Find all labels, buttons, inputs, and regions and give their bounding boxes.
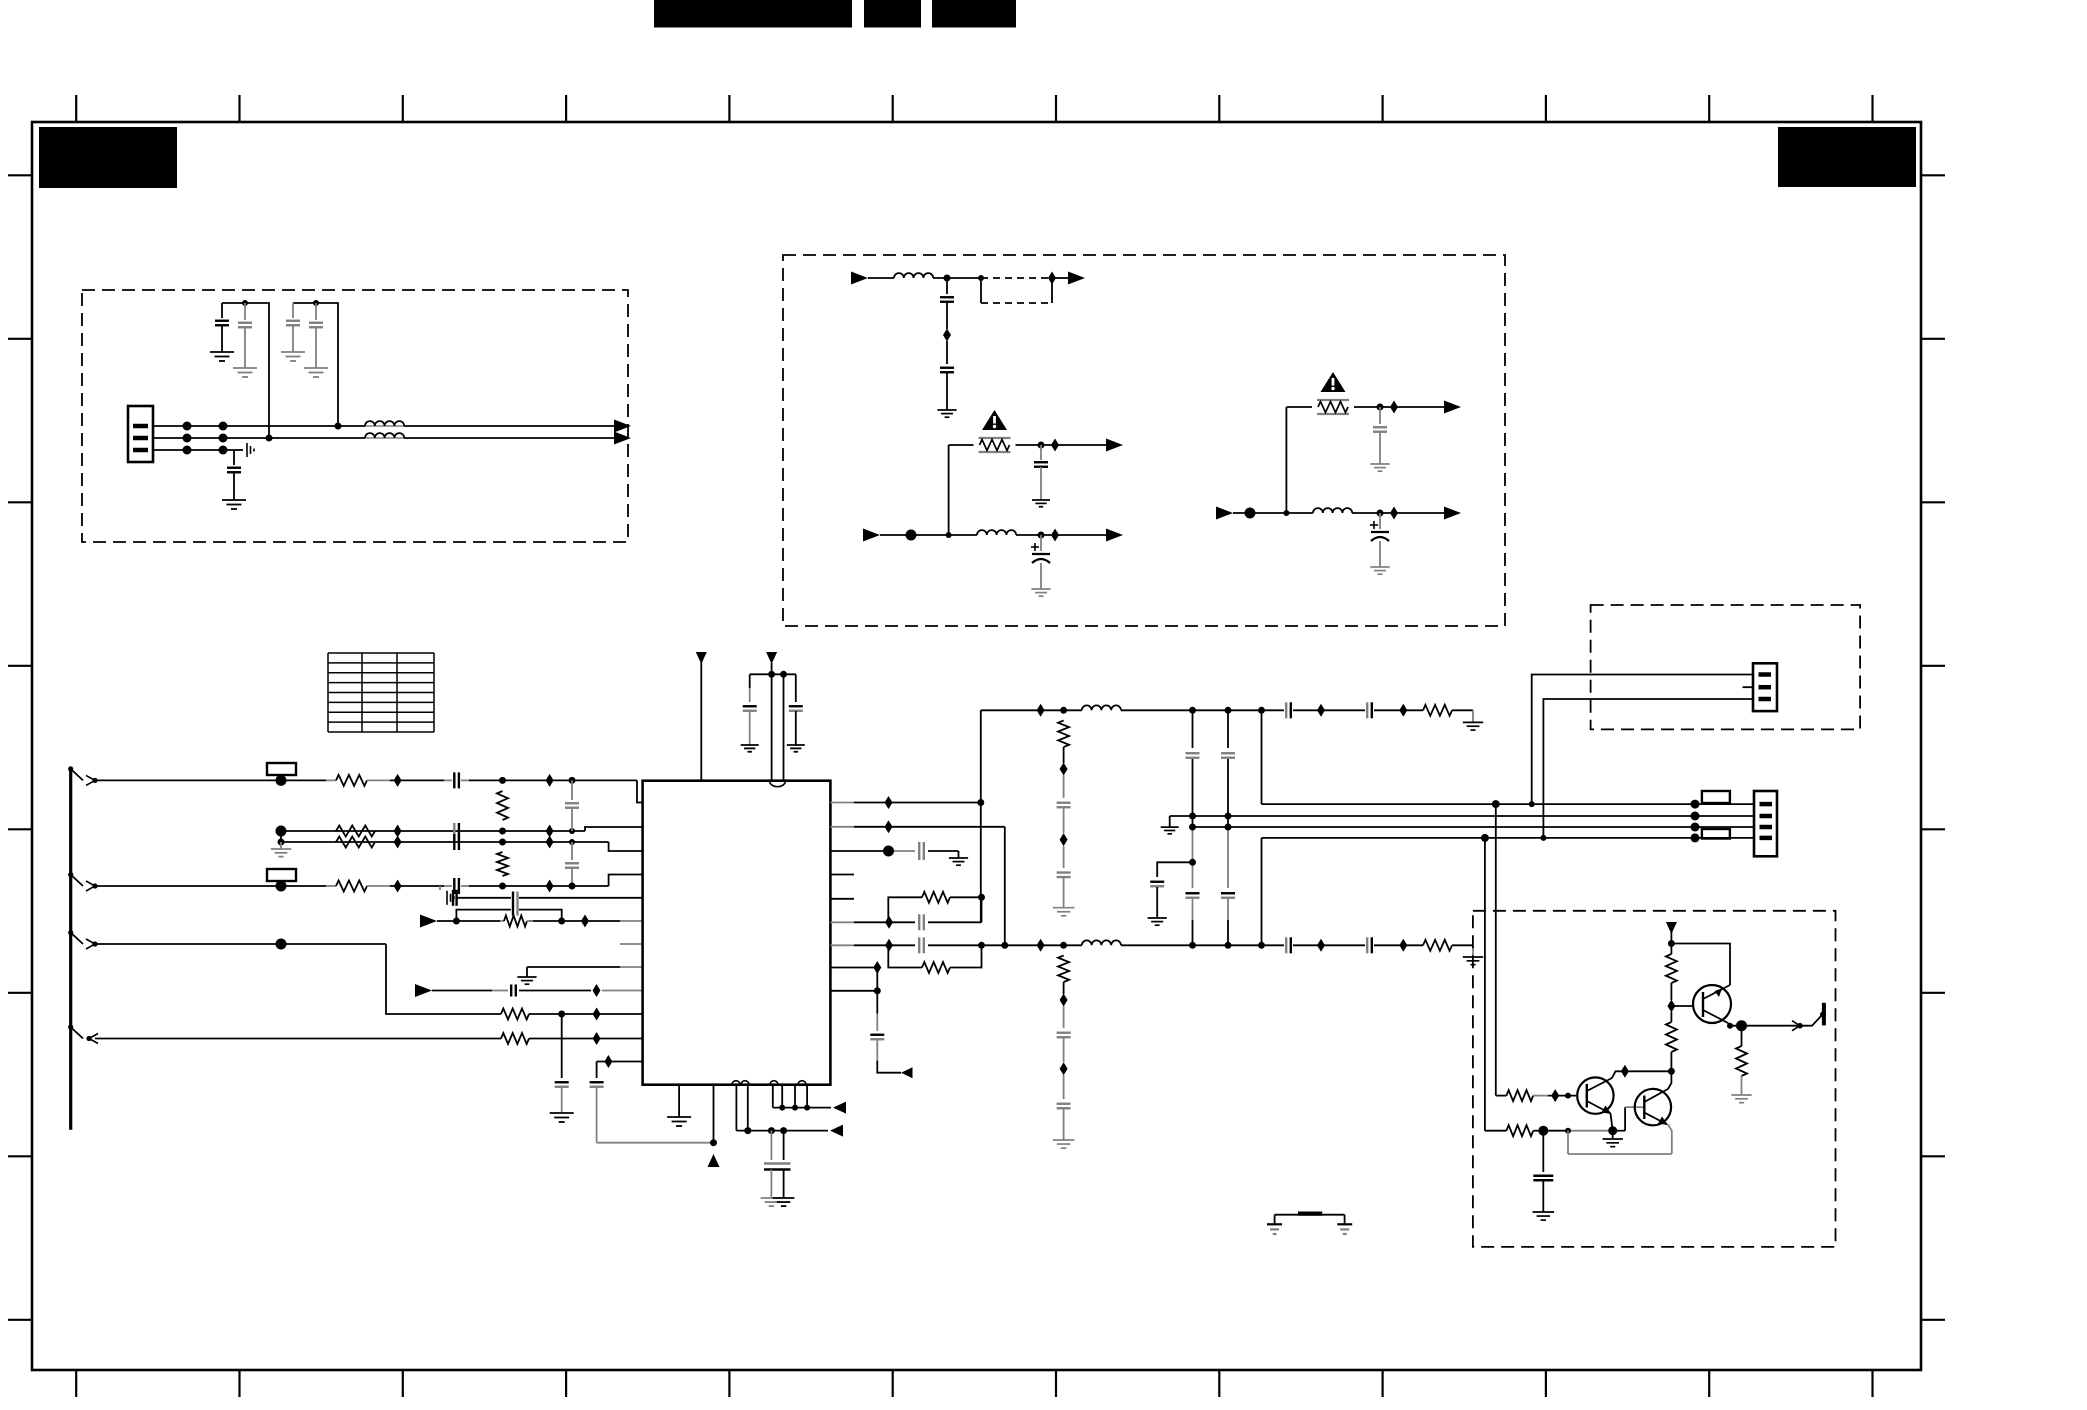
drop to transistor box 1	[1495, 804, 1497, 1096]
diamond wire3 b	[546, 880, 554, 893]
arrow in row B	[863, 529, 880, 542]
dashed box: power input filter	[82, 290, 628, 542]
redacted title block top-left	[39, 127, 177, 188]
arrow out right-upper	[1444, 401, 1461, 414]
divider ch2 link 3	[1063, 1075, 1065, 1099]
wire R18 to diamond	[1670, 983, 1672, 1000]
vertical capacitor C15 wire1-wire2a	[565, 780, 579, 831]
divider ch2 link 2	[1063, 1038, 1065, 1062]
dot V4 node	[1668, 940, 1675, 947]
wire row2 to emitter node	[1543, 1130, 1612, 1132]
vertical capacitor C21 below pin10 node	[555, 1014, 569, 1113]
arrow out row B	[1106, 529, 1123, 542]
arrow left pin9R	[901, 1067, 913, 1078]
wire Q2 emitter to ground node	[1611, 1114, 1613, 1131]
big dot row C	[1245, 508, 1256, 519]
diamond ch1 b	[1317, 704, 1325, 717]
dot Q1 collector	[1727, 1023, 1733, 1029]
capacitor C4	[309, 303, 323, 368]
diamond ch1 c	[1399, 704, 1407, 717]
wire row A to inductor	[868, 277, 894, 279]
dot wire2a c	[569, 828, 575, 834]
capacitor C32 divider ch1	[1057, 803, 1071, 808]
arrow out row1	[614, 420, 631, 433]
gray wire to IC bottom node	[597, 1142, 714, 1144]
node dot IC bottom	[710, 1139, 717, 1146]
connector J3	[1753, 663, 1777, 711]
wire group2 to arrow	[773, 1107, 831, 1109]
ground divider ch2	[1053, 1140, 1075, 1148]
capacitor C8 below R1 node	[1034, 445, 1048, 500]
transistor Q1	[1693, 985, 1731, 1023]
diamond pin1R	[885, 796, 893, 809]
vertical resistor R7 wire2b-wire3	[497, 852, 508, 876]
node dot rail 2	[313, 300, 319, 306]
arrow in row C	[1216, 507, 1233, 520]
stub pin4R	[830, 874, 854, 876]
feedback loop Q3 emitter	[1568, 1125, 1672, 1155]
ground stem Q2 emitter	[1612, 1131, 1614, 1139]
dots wire A	[1492, 800, 1535, 808]
dot pin10 row	[558, 1011, 565, 1018]
chassis ground on pin3 row	[234, 443, 254, 457]
dashed box: secondary supply filters	[783, 255, 1505, 626]
wire pin7R channel2	[830, 944, 1035, 946]
capacitor C38 divider ch2	[1057, 1104, 1071, 1109]
arrow in wire5	[420, 915, 437, 928]
capacitor C35 ch2	[1286, 937, 1291, 953]
wire: connector pin1 row	[153, 425, 404, 427]
ground ch1 end	[1463, 722, 1483, 730]
diamond ch1	[1037, 704, 1045, 717]
diamond Q2 base	[1551, 1089, 1559, 1102]
bulk capacitor C25 gray	[771, 1131, 783, 1160]
resistor R16 ch2	[1423, 940, 1452, 951]
resistor R10 pin10 row	[501, 1009, 529, 1020]
divider link gray 1	[1063, 747, 1065, 798]
dashed box: mute circuit	[1473, 911, 1836, 1247]
wire pin8 to chassis ground	[527, 967, 643, 977]
junction dot wire2a a	[499, 828, 506, 835]
resistor R4 wire2a	[336, 826, 375, 837]
cap chain x=1228	[1221, 710, 1235, 945]
dot row2 b	[1565, 1128, 1571, 1134]
wire 2b to IC	[281, 842, 643, 851]
wire collector bus	[1625, 1070, 1672, 1072]
chassis ground wire4	[440, 886, 454, 905]
IC pin7 stub gray	[620, 943, 643, 945]
fusible resistor R2	[1317, 400, 1349, 414]
junction dot wire3 a	[499, 883, 506, 890]
wire left of R1	[949, 444, 974, 446]
capacitor C27 fb ch1	[919, 914, 924, 930]
big dot wire3	[276, 881, 287, 892]
diamond after R1	[1051, 439, 1059, 452]
junction dot after R2	[1377, 404, 1384, 411]
wire right of R2 to arrow	[1354, 406, 1444, 408]
pin table	[328, 653, 434, 732]
wire Q2 collector	[1612, 1071, 1625, 1078]
diamond wire2a b	[546, 825, 554, 838]
double ground right	[773, 1198, 795, 1206]
riser to top connector 1	[1532, 675, 1753, 805]
diamond pin6R	[885, 916, 893, 929]
inductor L3	[894, 273, 933, 278]
wire Q3 collector	[1668, 1071, 1671, 1089]
wire 5 parallel branch top	[456, 910, 561, 921]
dot wire2b c	[569, 839, 575, 845]
diamond Q1 base node	[1667, 1000, 1675, 1013]
divider chain ch1: resistor R15	[1058, 721, 1069, 748]
redacted header block 3	[932, 0, 1016, 28]
inductor L5	[1313, 508, 1352, 513]
cap chain x=1192.5	[1186, 710, 1200, 945]
dots wire D	[1481, 834, 1547, 842]
input resistor R22 row2	[1485, 1125, 1543, 1136]
jumper with double ground	[1275, 1214, 1345, 1225]
rail dots	[768, 671, 787, 678]
junction dots on input rows	[183, 422, 228, 455]
capacitor C3	[286, 303, 300, 352]
dots group1	[744, 1127, 787, 1134]
vertical capacitor C22 pin12	[590, 1062, 604, 1143]
wire V2 to rail	[771, 663, 773, 674]
resistor R20	[1666, 1012, 1677, 1071]
wire pin3R with cap to ground	[830, 851, 958, 858]
big dot output node	[1736, 1020, 1747, 1031]
diamond divider ch1 a	[1060, 763, 1068, 776]
warning triangle W2	[1321, 372, 1346, 392]
diamond collector bus	[1621, 1065, 1629, 1078]
stub J3 pin2	[1743, 686, 1754, 688]
wire row A after inductor	[933, 277, 981, 279]
diamond wire5	[581, 915, 589, 928]
vertical resistor R6 wire1-wire2a	[497, 791, 508, 820]
diamond pin7R	[885, 939, 893, 952]
capacitor C10 below R2 node	[1373, 407, 1387, 464]
bus entry wire 1	[68, 766, 98, 785]
mid wire C	[1193, 826, 1755, 828]
junction dot wire1 a	[499, 777, 506, 784]
capacitor C2	[238, 303, 252, 368]
inductor L1	[365, 421, 408, 426]
output wire to terminal	[1800, 1015, 1823, 1026]
ferrite bead FB3	[1702, 791, 1730, 803]
riser channel2	[1004, 827, 1006, 946]
mid wire B with chassis ground	[1170, 816, 1754, 827]
wire right of R1 to arrow	[1016, 444, 1107, 446]
wire row C after inductor	[1352, 512, 1444, 514]
wire pin12 with diamond	[597, 1061, 643, 1063]
diamond ch2 b	[1317, 939, 1325, 952]
capacitor C18 wire4 input	[453, 890, 457, 906]
IC top notch	[770, 781, 786, 787]
top/bottom tick marks	[76, 95, 1872, 1397]
inductor L7 ch2	[1082, 940, 1121, 945]
arrow out row C	[1444, 507, 1461, 520]
junction dot row A	[944, 275, 951, 282]
diamond pin2R	[885, 820, 893, 833]
bus entry wire 6	[68, 930, 98, 949]
ground divider ch1	[1053, 908, 1075, 916]
riser to top connector 2	[1543, 699, 1753, 838]
connector J2 output	[1754, 791, 1777, 856]
junction dot wire1 c	[569, 777, 576, 784]
ground for C11	[1370, 567, 1389, 574]
bus exit wire 7	[68, 1025, 98, 1044]
dot collector bus	[1668, 1068, 1675, 1075]
diamond pin9	[593, 984, 601, 997]
IC U1	[643, 781, 831, 1085]
wire 3 from bus to IC	[95, 875, 643, 887]
diamond on tap	[943, 329, 951, 342]
ground for C2	[233, 368, 257, 377]
junction dot riser wire2	[266, 435, 273, 442]
diamond pin8R	[873, 961, 881, 974]
diamond divider ch1 b	[1060, 833, 1068, 846]
dot ch1 a	[1060, 707, 1067, 714]
drop to transistor box 2	[1484, 838, 1486, 1131]
wire Q1 collector to output	[1728, 1023, 1800, 1026]
divider link gray 4	[1063, 878, 1065, 908]
wire row A out	[1052, 277, 1068, 279]
resistor R5 wire2b	[336, 837, 375, 848]
vertical link to row C	[1285, 407, 1287, 513]
IC bottom pins group 1	[736, 1085, 747, 1131]
capacitor C28 fb ch2	[919, 937, 924, 953]
channel1 wire	[981, 709, 1473, 711]
node dot rail 1	[242, 300, 248, 306]
IC bottom pins group 2	[773, 1085, 807, 1108]
diamond after R2	[1390, 401, 1398, 414]
stub pin5R	[830, 898, 854, 900]
arrow in wire pin9	[415, 984, 432, 997]
riser channel1 node	[980, 710, 982, 922]
divider chain ch2: resistor R17	[1058, 956, 1069, 983]
wire V4 down	[1670, 932, 1672, 954]
wire row B	[880, 534, 977, 536]
divider ch2 link 4	[1063, 1109, 1065, 1140]
capacitor C33 divider ch1	[1057, 873, 1071, 878]
divider link gray 3	[1063, 846, 1065, 868]
resistor R3 wire1	[326, 775, 390, 786]
capacitor C14 wire2b	[454, 834, 459, 850]
link x=1261.5 top	[1261, 710, 1263, 804]
big dot row B	[906, 530, 917, 541]
dot chain1 mid	[1189, 813, 1196, 866]
resistor R18	[1666, 954, 1677, 983]
ground C39	[1533, 1212, 1555, 1220]
ground Q2 emitter	[1603, 1139, 1623, 1147]
ground for C4	[304, 368, 328, 377]
big dot row2	[1538, 1126, 1548, 1136]
capacitor C26 pin3R	[919, 842, 924, 860]
wire row B after inductor	[1016, 534, 1106, 536]
channel2 wire	[1035, 944, 1473, 946]
diamond divider ch2 a	[1060, 994, 1068, 1007]
wire: connector pin3 row	[153, 449, 234, 451]
wire 6 from bus	[95, 944, 501, 1014]
divider ch2 link 1	[1063, 982, 1065, 1028]
vertical link to row B	[948, 445, 950, 535]
arrow out row2	[614, 432, 631, 445]
ground for C3	[281, 352, 305, 361]
resistor R8 wire3	[326, 881, 390, 892]
dot ch2 a	[1060, 942, 1067, 949]
ground ch2 end	[1463, 957, 1483, 965]
bus entry wire 3	[68, 872, 98, 891]
wire pin9R	[830, 990, 877, 992]
vertical capacitor C16 wire2b-wire3	[565, 842, 579, 886]
capacitor C6 on row A tap	[940, 278, 954, 329]
resistor R9 wire5	[500, 916, 533, 927]
resistor R19 output load	[1736, 1026, 1747, 1095]
wire pin1R out	[830, 802, 980, 804]
input resistor R21 row1	[1496, 1090, 1578, 1101]
diamond row B	[1051, 529, 1059, 542]
wire after L1 to output arrow	[404, 425, 614, 427]
inductor L4	[977, 530, 1016, 535]
power flag V4	[1666, 922, 1677, 934]
bulk cap leads to grounds	[771, 1170, 783, 1199]
wire pin8R	[830, 967, 877, 969]
drop pin8R	[876, 968, 878, 991]
arrow out mid-left	[1106, 439, 1123, 452]
dot wire5 b	[558, 918, 565, 925]
side capacitor C34	[1150, 862, 1192, 918]
diamond wire2b	[394, 836, 402, 849]
capacitor C36 ch2	[1367, 937, 1372, 953]
wire: vertical riser to cap pair 1	[222, 303, 269, 438]
IC ground stub	[678, 1085, 680, 1117]
wire V1 to IC top	[700, 662, 702, 781]
IC bottom pin to node	[713, 1085, 715, 1143]
dot pin9R	[874, 987, 881, 994]
ground drop ch1	[1472, 710, 1474, 722]
dot wire2b	[278, 839, 285, 846]
capacitor C20 pin9	[511, 985, 516, 997]
diamond ch2	[1037, 939, 1045, 952]
ferrite bead FB1	[267, 763, 296, 775]
ground below IC	[667, 1117, 691, 1126]
dot chain2 mid	[1225, 813, 1232, 831]
IC bottom notch 1	[732, 1081, 749, 1085]
mid wire A	[1262, 803, 1755, 805]
dot fb ch2 node	[978, 942, 985, 949]
power flag V1	[696, 652, 707, 664]
wire diamond to Q1 base	[1671, 1005, 1694, 1007]
connector J1 power input	[128, 406, 153, 462]
wire pin9 to IC	[432, 990, 643, 992]
IC bottom notch 2	[770, 1081, 806, 1085]
capacitor C30 ch1	[1286, 702, 1291, 718]
ground for C9	[1031, 589, 1050, 596]
dots group2	[779, 1105, 810, 1111]
big dot emitter node	[1608, 1126, 1617, 1135]
chassis ground wire B	[1161, 827, 1179, 834]
ground for C1	[210, 352, 234, 361]
diamond wire2b b	[546, 836, 554, 849]
decoupling rail	[750, 673, 796, 675]
big dot pin3R	[883, 846, 894, 857]
power flag up V3	[708, 1154, 720, 1167]
big dot wire2a	[276, 826, 287, 837]
capacitor C7 on tap	[940, 341, 954, 410]
wire left of R2	[1286, 406, 1312, 408]
wire pin2R out	[830, 826, 1004, 828]
node dot row A2	[978, 275, 984, 281]
junction dot row B2	[1038, 532, 1045, 539]
dot wire5 a	[453, 918, 460, 925]
capacitor C24 rail right	[789, 674, 803, 745]
diamond divider ch2 b	[1060, 1062, 1068, 1075]
electrolytic capacitor C11	[1370, 513, 1389, 567]
redacted header block 2	[864, 0, 921, 28]
dot Q2 base link	[1565, 1093, 1571, 1099]
ground for C7	[937, 410, 956, 417]
inductor L2	[365, 433, 404, 438]
capacitor C17 wire3	[444, 878, 469, 894]
mid wire D	[1262, 837, 1755, 839]
junction dot riser wire1	[335, 423, 342, 430]
junction dot row C	[1283, 510, 1289, 516]
dot pin1R node	[977, 799, 984, 806]
dashed box: remote connector	[1591, 605, 1861, 729]
diamond wire3	[394, 880, 402, 893]
wire: vertical riser to cap pair 2	[293, 303, 338, 426]
dashed link row A	[981, 277, 1052, 279]
resistor R14 ch1	[1423, 705, 1452, 716]
dots ch1 chain taps	[1189, 707, 1265, 714]
dots ch2 chain taps	[1189, 942, 1232, 949]
arrow left group2	[833, 1102, 846, 1114]
power flag V2	[766, 652, 777, 664]
ferrite bead FB2	[267, 869, 296, 881]
capacitor C13 wire2a	[454, 823, 459, 839]
ground drop ch2	[1472, 945, 1474, 957]
wire pin10 row	[529, 1013, 643, 1015]
bus line	[69, 767, 72, 1130]
capacitor C31 ch1	[1367, 702, 1372, 718]
big dot wire6	[276, 939, 287, 950]
tall capacitor C19	[513, 892, 518, 916]
ground for C24	[787, 745, 805, 752]
double ground left	[761, 1198, 783, 1206]
terminal bar	[1820, 1003, 1826, 1026]
resistor R11 pin11 row	[501, 1033, 529, 1044]
capacitor C37 divider ch2	[1057, 1033, 1071, 1038]
electrolytic capacitor C9	[1031, 535, 1050, 589]
diamond ch2 c	[1399, 939, 1407, 952]
diamond wire2a	[394, 825, 402, 838]
ferrite bead FB4	[1702, 829, 1730, 839]
wire row C	[1233, 512, 1313, 514]
chassis ground pin3R	[949, 858, 968, 865]
redacted header block 1	[654, 0, 852, 28]
diamond row C	[1390, 507, 1398, 520]
wire 7 from bus to IC	[95, 1038, 643, 1040]
ground for C8	[1032, 500, 1050, 507]
wire group1 to arrow	[736, 1130, 828, 1132]
diamond pin12	[604, 1055, 612, 1068]
wire 5 to IC	[437, 920, 643, 922]
big dots before connector	[1691, 800, 1700, 843]
link and ground for pair	[271, 831, 291, 857]
chassis ground pin8	[517, 977, 536, 984]
ground for C23	[741, 745, 759, 752]
dashed jumper box below row A	[981, 281, 1052, 303]
capacitor C12 wire1	[444, 772, 469, 788]
